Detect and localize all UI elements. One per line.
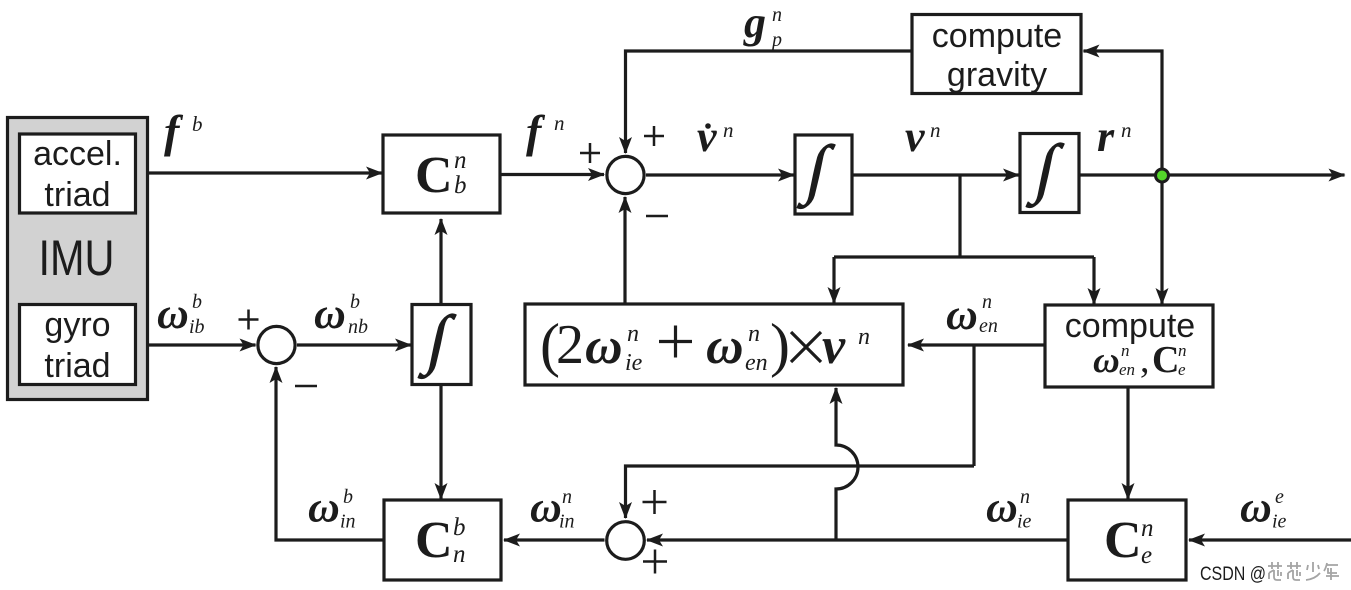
svg-text:r: r	[1097, 112, 1115, 161]
svg-text:C: C	[415, 512, 453, 569]
svg-text:n: n	[858, 324, 870, 350]
svg-text:n: n	[1020, 486, 1030, 508]
svg-text:f: f	[164, 106, 184, 157]
svg-text:in: in	[559, 511, 575, 533]
svg-text:n: n	[772, 4, 782, 26]
svg-text:n: n	[930, 118, 941, 142]
svg-text:,: ,	[1140, 339, 1150, 381]
svg-text:ie: ie	[625, 350, 643, 376]
svg-text:ie: ie	[1272, 511, 1287, 533]
svg-text:n: n	[627, 321, 639, 347]
svg-text:gravity: gravity	[947, 56, 1047, 94]
svg-text:C: C	[1152, 339, 1179, 381]
svg-text:n: n	[723, 118, 734, 142]
svg-text:ω: ω	[706, 318, 744, 375]
svg-text:v: v	[697, 112, 717, 161]
svg-text:ω: ω	[946, 290, 978, 339]
svg-text:ω: ω	[986, 483, 1018, 532]
svg-text:C: C	[415, 147, 453, 204]
svg-text:b: b	[343, 486, 353, 508]
svg-text:compute: compute	[932, 17, 1062, 55]
svg-text:n: n	[748, 321, 760, 347]
svg-text:triad: triad	[44, 176, 110, 214]
svg-text:g: g	[743, 0, 766, 47]
svg-text:nb: nb	[348, 316, 368, 338]
svg-text:ib: ib	[189, 316, 205, 338]
svg-text:C: C	[1104, 512, 1142, 569]
svg-text:n: n	[1141, 515, 1154, 542]
svg-text:2: 2	[556, 314, 584, 376]
svg-text:e: e	[1275, 486, 1284, 508]
svg-text:ω: ω	[308, 483, 340, 532]
svg-text:CSDN @: CSDN @	[1200, 564, 1266, 585]
svg-text:n: n	[554, 111, 565, 135]
svg-text:p: p	[770, 29, 782, 51]
svg-text:gyro: gyro	[44, 306, 110, 344]
svg-text:en: en	[1119, 360, 1135, 379]
svg-text:n: n	[454, 147, 467, 174]
svg-text:ω: ω	[585, 318, 623, 375]
svg-text:ie: ie	[1017, 511, 1032, 533]
svg-text:accel.: accel.	[33, 135, 122, 173]
svg-text:ω: ω	[157, 289, 189, 338]
svg-text:n: n	[453, 541, 466, 568]
svg-text:): )	[770, 312, 790, 378]
svg-text:ω: ω	[314, 289, 346, 338]
svg-text:b: b	[454, 172, 467, 199]
svg-text:ω: ω	[1240, 483, 1272, 532]
svg-text:ω: ω	[530, 483, 562, 532]
svg-text:in: in	[340, 511, 356, 533]
svg-text:n: n	[982, 291, 992, 313]
svg-text:e: e	[1141, 542, 1152, 569]
svg-text:triad: triad	[44, 347, 110, 385]
svg-text:en: en	[745, 350, 768, 376]
svg-text:n: n	[1121, 341, 1130, 360]
svg-text:v: v	[905, 112, 925, 161]
svg-text:n: n	[1178, 341, 1187, 360]
svg-text:v: v	[822, 318, 846, 375]
svg-text:en: en	[979, 315, 998, 337]
svg-text:b: b	[192, 112, 203, 136]
svg-text:ω: ω	[1093, 340, 1120, 381]
svg-text:b: b	[350, 291, 360, 313]
svg-text:f: f	[526, 106, 546, 157]
svg-text:e: e	[1178, 360, 1186, 379]
svg-text:b: b	[453, 514, 466, 541]
svg-text:n: n	[1121, 118, 1132, 142]
svg-text:b: b	[192, 291, 202, 313]
svg-text:IMU: IMU	[39, 230, 115, 286]
svg-text:n: n	[562, 486, 572, 508]
